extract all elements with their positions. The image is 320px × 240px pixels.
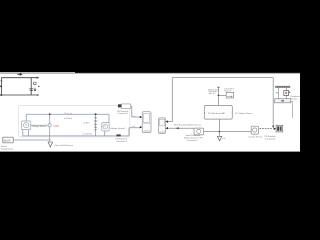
scope2 input arrow 1: [166, 120, 169, 122]
white canvas top-left soft edge: [0, 72, 75, 73]
capacitor C branch vertical: [30, 78, 32, 95]
wire converter drop to source: [217, 87, 219, 105]
voltage sensor U1 block: [21, 121, 30, 130]
voltage annotation circle: [33, 82, 36, 85]
current arrow ia annotation: [17, 73, 21, 75]
wire scope input2 from bottom net: [129, 128, 140, 136]
svg-text:add: add: [132, 116, 135, 118]
wire sensor1 out to node: [31, 124, 48, 126]
inductor branch vertical: [95, 114, 97, 136]
wire sensor left: [168, 127, 194, 129]
svg-text:Converter 3: Converter 3: [116, 140, 128, 143]
tick on converter drop: [217, 86, 220, 88]
solver configuration block: [3, 137, 13, 143]
wire right-loop top: [172, 77, 273, 79]
svg-text:Voltage Sensor: Voltage Sensor: [32, 125, 46, 128]
scope1 input arrow 1: [140, 116, 142, 118]
port circle (sensor1 out node): [48, 124, 51, 127]
wire left vertical: [0, 78, 2, 95]
PS-Simulink converter U4 port (on bottom wire): [117, 134, 121, 136]
selection group box (faint): [18, 105, 129, 136]
wire stub to pwm block: [218, 94, 226, 96]
node dot on stub: [218, 95, 220, 97]
node dot (source top): [49, 113, 51, 115]
svg-text:Voltage Sensor2: Voltage Sensor2: [110, 127, 126, 130]
white canvas main area: [0, 73, 300, 151]
wire from inertia right down: [291, 102, 293, 118]
wire sensor2 bottom stub: [104, 131, 106, 136]
svg-text:f(x)=0: f(x)=0: [4, 138, 11, 142]
wire solver to reference: [13, 139, 50, 141]
arrow on sensor wire: [176, 127, 179, 129]
tick on hanger1: [276, 92, 277, 93]
node A arrow (top wire end): [37, 77, 40, 79]
scope2 input arrow 2: [166, 127, 169, 129]
PS-Simulink converter U3 block: [121, 104, 131, 109]
wire sensor2 top entry: [108, 114, 110, 122]
plus tick left: [1, 80, 3, 81]
svg-text:Source: Source: [224, 90, 231, 93]
port dot right of friction: [289, 92, 290, 93]
svg-text:add: add: [132, 126, 135, 128]
wire bottom bus: [204, 131, 252, 133]
pwm source block: [226, 92, 233, 98]
dashed signal to scope3: [259, 128, 272, 130]
wire right-loop left drop: [168, 78, 173, 122]
DC machine block: [204, 105, 232, 119]
scope2 block: [159, 118, 166, 134]
node B tick (bottom wire end): [37, 94, 39, 95]
svg-text:Converter 2: Converter 2: [187, 139, 199, 142]
svg-text:Converter1: Converter1: [118, 112, 129, 115]
svg-text:Friction: Friction: [291, 97, 299, 100]
wire converter1 to scope: [131, 106, 140, 117]
wire top: [1, 77, 36, 79]
corner mark bottom-left: [0, 94, 2, 96]
svg-text:V: V: [25, 123, 27, 127]
wire loop top: [26, 113, 109, 115]
svg-text:R (Ohm): R (Ohm): [64, 118, 72, 120]
scope1 input arrow 2: [140, 126, 142, 128]
ground2 (electrical reference): [218, 132, 220, 137]
scope3 block (dark): [276, 125, 283, 132]
current annotation arrow: [34, 88, 36, 91]
capacitor C plates: [29, 89, 33, 91]
wire loop bottom: [23, 135, 129, 137]
wire sensor1 top entry: [25, 114, 27, 121]
svg-text:Ld (F): Ld (F): [83, 122, 89, 124]
wire bottom: [1, 94, 37, 96]
arrow at end of right-loop drop: [272, 126, 274, 128]
rotational reference hatched bar: [275, 86, 290, 88]
ground (electrical reference): [48, 142, 53, 147]
arrow into scope3: [274, 128, 277, 130]
wire right-loop right drop: [272, 78, 274, 128]
svg-text:Converter3: Converter3: [265, 137, 276, 140]
speed sensor block (mid): [251, 126, 258, 134]
inductor Ld ticks: [94, 118, 97, 130]
wire source branch vertical: [49, 114, 51, 142]
voltage sensor U2 block: [102, 123, 109, 132]
hanger wire 2: [285, 88, 287, 99]
node dot (top junction): [95, 113, 97, 115]
white canvas top soft edge: [0, 72, 300, 75]
svg-text:Block 1: Block 1: [209, 93, 217, 95]
label B left: [0, 85, 2, 87]
svg-text:DC Machine 5HP: DC Machine 5HP: [208, 113, 225, 115]
svg-text:DC Voltage Source: DC Voltage Source: [235, 112, 254, 115]
current sensor block (left): [194, 128, 204, 135]
friction block: [284, 91, 289, 96]
node dot machine bottom: [219, 131, 221, 133]
scope1 block: [142, 112, 151, 133]
wire machine bottom: [218, 119, 220, 132]
tiny label right: [38, 86, 39, 87]
svg-text:Current Sensor: Current Sensor: [248, 136, 262, 139]
svg-text:Electrical Reference: Electrical Reference: [55, 144, 74, 147]
hanger wire 1: [277, 88, 279, 99]
inertia bar block: [275, 99, 291, 103]
svg-text:Ideal Rotational Motion Sensor: Ideal Rotational Motion Sensor: [174, 124, 202, 127]
svg-text:s 0.5: s 0.5: [53, 124, 59, 128]
wire sensor1 bottom stubs: [23, 130, 29, 136]
svg-text:C2 (Ohm): C2 (Ohm): [83, 133, 92, 135]
svg-text:Configuration: Configuration: [1, 147, 14, 150]
svg-text:Pu(s,a): Pu(s,a): [64, 112, 72, 115]
